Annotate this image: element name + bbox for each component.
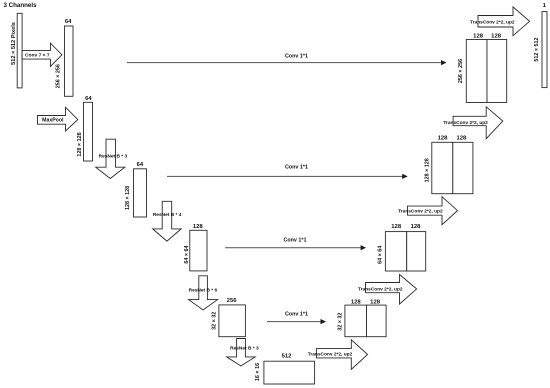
svg-text:64: 64 — [137, 162, 144, 168]
svg-text:128: 128 — [473, 34, 484, 40]
encoder bar E3 64ch 128x128 — [125, 162, 147, 217]
svg-text:512 × 512 Pixels: 512 × 512 Pixels — [11, 22, 17, 65]
svg-text:TransConv 2*2, up2: TransConv 2*2, up2 — [470, 20, 515, 26]
conv1x1 skip arrow level 64 — [225, 237, 366, 250]
svg-text:Conv 7 × 7: Conv 7 × 7 — [25, 53, 50, 59]
svg-text:64: 64 — [65, 19, 72, 25]
input layer bar 512x512x3 — [17, 13, 22, 88]
resnet block x4 down arrow — [153, 201, 182, 241]
svg-text:TransConv 2*2, up2: TransConv 2*2, up2 — [398, 209, 443, 215]
encoder bar E1 64ch 256x256 — [56, 19, 73, 96]
resnet block x3 down arrow — [96, 139, 128, 178]
conv7x7 arrow — [22, 43, 62, 66]
conv1x1 skip arrow level 256 — [127, 53, 447, 65]
svg-text:ResNet B * 3: ResNet B * 3 — [230, 346, 259, 352]
svg-text:3 Channels: 3 Channels — [4, 2, 38, 9]
svg-text:ResNet B * 4: ResNet B * 4 — [153, 212, 182, 218]
svg-text:128 × 128: 128 × 128 — [77, 132, 83, 156]
output layer bar 1ch 512x512 — [534, 3, 547, 88]
label 512 x 512 Pixels — [11, 22, 17, 65]
transconv arrow D D3 to D2 — [443, 107, 502, 139]
decoder block D2 128+128 at 256x256 — [458, 34, 507, 103]
svg-text:TransConv 2*2, up2: TransConv 2*2, up2 — [443, 120, 488, 126]
encoder bar E2 64ch 128x128 — [77, 96, 92, 161]
decoder block D3 128+128 at 128x128 — [425, 136, 473, 194]
svg-text:512: 512 — [282, 354, 293, 360]
svg-text:32 × 32: 32 × 32 — [337, 313, 343, 331]
encoder bar E4 128ch 64x64 — [184, 224, 207, 271]
svg-text:128: 128 — [391, 224, 402, 230]
svg-text:512 × 512: 512 × 512 — [534, 38, 540, 62]
svg-text:32 × 32: 32 × 32 — [212, 312, 218, 330]
svg-text:ResNet B * 6: ResNet B * 6 — [189, 287, 218, 293]
svg-text:128 × 128: 128 × 128 — [125, 186, 131, 210]
svg-text:64 × 64: 64 × 64 — [377, 246, 383, 264]
conv1x1 skip arrow level 32 — [267, 311, 326, 324]
svg-text:128: 128 — [351, 299, 362, 305]
svg-text:Conv 1*1: Conv 1*1 — [285, 164, 308, 170]
svg-text:128: 128 — [491, 34, 502, 40]
svg-text:TransConv 2*2, up2: TransConv 2*2, up2 — [308, 352, 353, 358]
svg-text:256 × 256: 256 × 256 — [56, 64, 62, 88]
svg-text:Conv 1*1: Conv 1*1 — [285, 311, 308, 317]
svg-text:256: 256 — [227, 298, 238, 304]
svg-text:256 × 256: 256 × 256 — [458, 59, 464, 83]
bottleneck box E6 512ch 16x16 — [255, 354, 314, 385]
svg-text:128: 128 — [411, 224, 422, 230]
svg-text:64 × 64: 64 × 64 — [184, 246, 190, 264]
svg-text:Conv 1*1: Conv 1*1 — [283, 237, 306, 243]
svg-text:128: 128 — [438, 136, 449, 142]
svg-text:64: 64 — [85, 96, 92, 102]
svg-text:Conv 1*1: Conv 1*1 — [285, 53, 308, 59]
resnet block x6 down arrow — [189, 276, 218, 310]
label 3 Channels — [4, 2, 38, 9]
svg-text:128: 128 — [370, 299, 381, 305]
svg-text:128 × 128: 128 × 128 — [425, 158, 431, 182]
conv1x1 skip arrow level 128 — [167, 164, 408, 179]
resnet block x3 down arrow bottom — [227, 339, 259, 367]
svg-text:128: 128 — [456, 136, 467, 142]
maxpool arrow — [38, 107, 78, 131]
svg-text:MaxPool: MaxPool — [42, 118, 64, 124]
svg-text:TransConv 2*2, up2: TransConv 2*2, up2 — [358, 286, 403, 292]
transconv arrow A bottleneck to D5 — [308, 340, 368, 370]
transconv arrow E D2 to output — [470, 7, 530, 36]
decoder block D5 128+128 at 32x32 — [337, 299, 386, 336]
svg-text:ResNet B * 3: ResNet B * 3 — [99, 154, 128, 160]
decoder block D4 128+128 at 64x64 — [377, 224, 425, 271]
transconv arrow C D4 to D3 — [398, 197, 457, 225]
svg-text:128: 128 — [193, 224, 204, 230]
encoder box E5 256ch 32x32 — [212, 298, 246, 336]
svg-text:16 × 16: 16 × 16 — [255, 363, 261, 381]
transconv arrow B D5 to D4 — [358, 275, 417, 305]
